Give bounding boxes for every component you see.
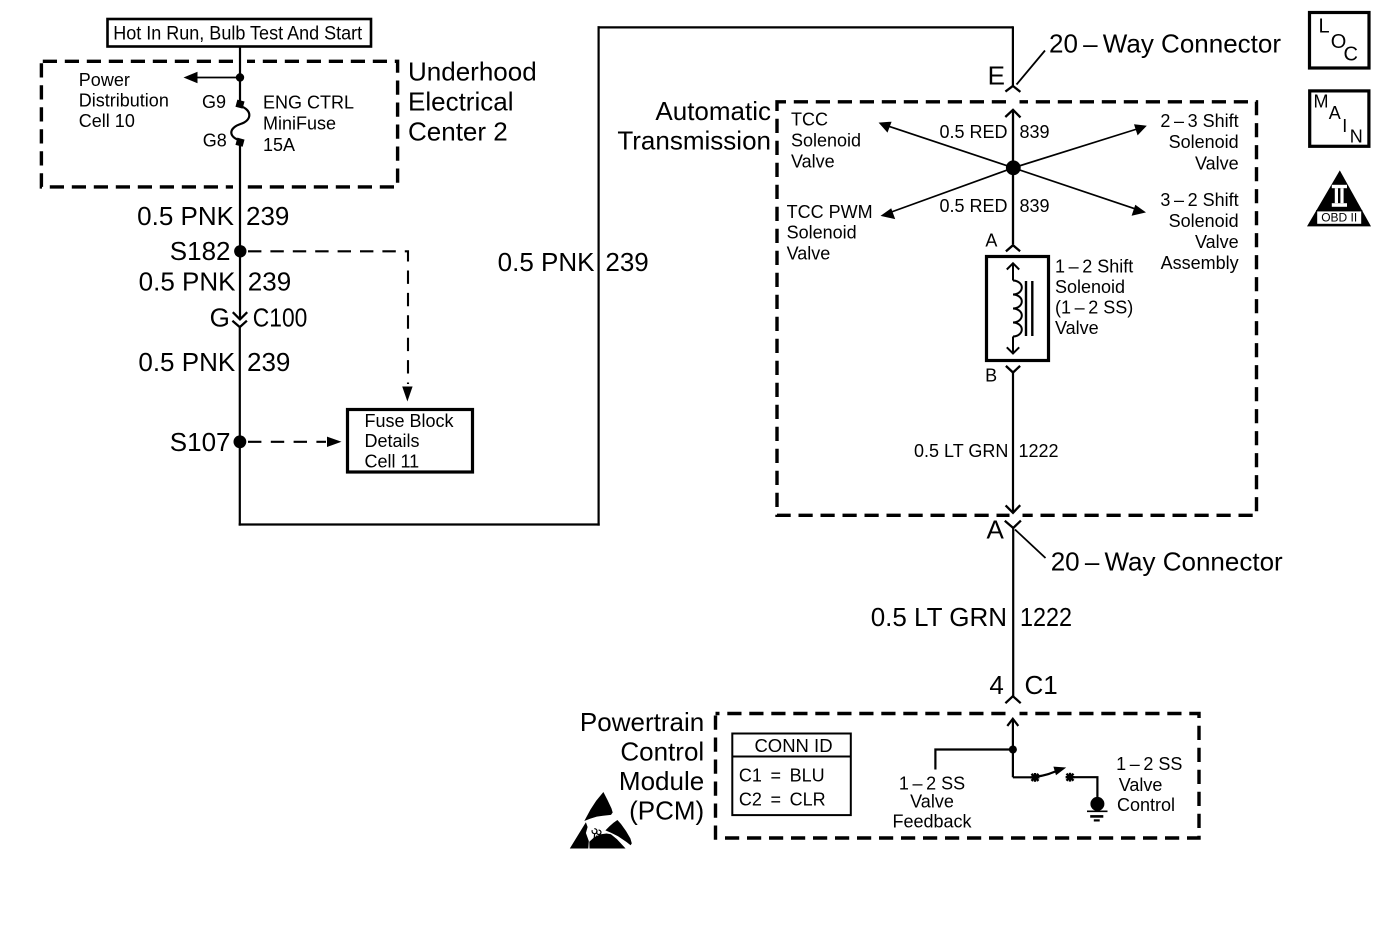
svg-text:839: 839 [1020, 122, 1050, 142]
svg-text:20 – Way Connector: 20 – Way Connector [1051, 546, 1283, 576]
svg-text:A: A [987, 515, 1005, 545]
node: fuse value label [263, 93, 354, 156]
node: 2-3 Shift Solenoid Valve label [1160, 111, 1238, 173]
wire label 0.5 PNK 239 (third) [138, 347, 290, 377]
wire label 0.5 LT GRN 1222 (below transmission) [871, 602, 1072, 632]
svg-text:C1: C1 [1025, 670, 1058, 700]
wire: entry arrow below E (open arrowhead up) [1005, 110, 1020, 244]
svg-text:Details: Details [365, 431, 420, 451]
wire: branch to 1-2 SS Valve Feedback [935, 750, 1013, 770]
svg-text:(PCM): (PCM) [629, 796, 704, 826]
svg-text:Underhood: Underhood [408, 57, 537, 87]
leader line to 20-Way Connector (top) [1017, 51, 1046, 85]
svg-text:G: G [210, 303, 230, 333]
wire: dashed branch from S107 to Fuse Block Details [248, 441, 326, 443]
svg-text:Control: Control [620, 737, 704, 767]
junction S182 [234, 245, 246, 257]
svg-text:15A: 15A [263, 135, 295, 155]
svg-text:Solenoid: Solenoid [1169, 132, 1239, 152]
solenoid coil [1013, 281, 1022, 337]
junction dot PCM [1009, 746, 1017, 754]
svg-text:Valve: Valve [791, 152, 835, 172]
wire: solenoid B down to 20-way connector [1012, 373, 1014, 512]
svg-text:0.5 PNK: 0.5 PNK [137, 201, 234, 231]
svg-text:E: E [988, 60, 1005, 90]
svg-text:I: I [1342, 116, 1347, 136]
ground symbol [1087, 797, 1108, 821]
ESD sensitivity symbol [570, 792, 632, 849]
svg-text:L: L [1319, 16, 1330, 38]
wire: riser vertical up [597, 26, 599, 525]
svg-text:OBD II: OBD II [1321, 211, 1357, 225]
svg-text:Powertrain: Powertrain [580, 707, 704, 737]
wire: arrow to TCC Solenoid Valve [888, 126, 1013, 168]
svg-text:239: 239 [605, 247, 648, 277]
svg-text:Hot In Run, Bulb Test And Star: Hot In Run, Bulb Test And Start [113, 23, 363, 45]
pin A chevron [1006, 245, 1020, 251]
svg-text:Valve: Valve [910, 791, 954, 811]
terminal G8 square [235, 138, 244, 147]
svg-text:Control: Control [1117, 795, 1175, 815]
svg-text:Cell 10: Cell 10 [79, 111, 135, 131]
junction dot to Power Distribution [236, 73, 244, 81]
connector E chevron [1005, 86, 1020, 92]
pin B chevron [1006, 366, 1020, 373]
solenoid 1-2 Shift (1-2 SS) valve box [987, 257, 1049, 361]
svg-text:Valve: Valve [787, 244, 831, 264]
wire label 0.5 RED 839 (lower) [939, 196, 1049, 216]
svg-text:G8: G8 [203, 131, 227, 151]
node: Power Distribution Cell 10 label [79, 70, 169, 131]
wire label 0.5 LT GRN 1222 (inside transmission) [914, 441, 1059, 461]
wire: dashed branch from S182 to Fuse Block Details [248, 251, 408, 384]
svg-text:Automatic: Automatic [655, 96, 771, 126]
node: Underhood Electrical Center 2 label [408, 57, 537, 147]
svg-text:Feedback: Feedback [892, 811, 972, 831]
svg-text:239: 239 [248, 266, 291, 296]
solenoid core lines [1025, 281, 1027, 336]
svg-text:239: 239 [246, 201, 289, 231]
svg-text:Module: Module [619, 766, 704, 796]
node: TCC PWM Solenoid Valve label [787, 202, 873, 264]
terminal G9 square [235, 100, 244, 109]
switch arm with arrow [1037, 771, 1058, 777]
wire label 0.5 PNK 239 (riser) [498, 247, 649, 277]
node: 3-2 Shift Solenoid Valve Assembly label [1160, 190, 1238, 273]
connector C1 chevron [1005, 696, 1020, 703]
node: Hot In Run feed box [108, 19, 372, 47]
svg-text:Valve: Valve [1119, 775, 1163, 795]
svg-text:MiniFuse: MiniFuse [263, 114, 336, 134]
junction dot solenoid feed [1006, 160, 1021, 175]
wire: main vertical below fuse down to bottom corner [239, 143, 241, 319]
svg-text:Valve: Valve [1195, 232, 1239, 252]
svg-text:Fuse Block: Fuse Block [365, 411, 455, 431]
svg-text:0.5 PNK: 0.5 PNK [498, 247, 595, 277]
leader line to 20-Way Connector (bottom) [1015, 530, 1046, 559]
svg-text:4: 4 [989, 670, 1003, 700]
node: Fuse Block Details box [348, 410, 473, 473]
svg-text:Solenoid: Solenoid [1169, 211, 1239, 231]
svg-text:0.5 RED: 0.5 RED [939, 196, 1007, 216]
svg-text:Valve: Valve [1195, 153, 1239, 173]
node: 1-2 SS Valve Feedback label [892, 773, 972, 831]
node: LOC index box [1310, 13, 1370, 69]
svg-text:239: 239 [247, 347, 290, 377]
svg-text:S182: S182 [170, 236, 231, 266]
svg-text:Solenoid: Solenoid [791, 131, 861, 151]
svg-text:M: M [1314, 92, 1329, 112]
svg-text:0.5 PNK: 0.5 PNK [138, 347, 235, 377]
svg-text:839: 839 [1020, 196, 1050, 216]
svg-text:A: A [985, 230, 997, 250]
svg-text:CONN ID: CONN ID [754, 735, 832, 756]
svg-text:Valve: Valve [1055, 318, 1099, 338]
node: CONN ID table [732, 734, 851, 816]
svg-text:N: N [1350, 127, 1363, 147]
svg-text:0.5 RED: 0.5 RED [939, 122, 1007, 142]
svg-text:0.5 LT GRN: 0.5 LT GRN [914, 441, 1008, 461]
wire: to switch left contact [1013, 776, 1032, 778]
svg-text:(1 – 2 SS): (1 – 2 SS) [1055, 297, 1133, 317]
svg-text:Solenoid: Solenoid [787, 223, 857, 243]
svg-text:C2 = CLR: C2 = CLR [739, 790, 826, 810]
svg-text:1 – 2 SS: 1 – 2 SS [899, 773, 965, 793]
svg-text:Power: Power [79, 70, 130, 90]
wire: arrow to Power Distribution Cell 10 [194, 77, 240, 79]
node: 1-2 Shift Solenoid label [1055, 256, 1133, 338]
svg-text:C: C [1344, 43, 1358, 65]
svg-text:ENG CTRL: ENG CTRL [263, 93, 354, 113]
arrow into Fuse Block Details box (right) [327, 437, 342, 447]
connector C100 symbol (arrow + chevron) [232, 312, 247, 327]
svg-text:B: B [985, 365, 997, 385]
svg-text:G9: G9 [202, 92, 226, 112]
fuse ENG CTRL MiniFuse 15A (S-curve element) [231, 106, 249, 141]
node: TCC Solenoid Valve label [791, 110, 861, 172]
svg-text:1 – 2 Shift: 1 – 2 Shift [1055, 256, 1133, 276]
powertrain control module dashed box [716, 714, 1200, 839]
svg-text:Cell 11: Cell 11 [365, 452, 420, 472]
wire: drop to connector E [1012, 26, 1014, 86]
svg-text:0.5 PNK: 0.5 PNK [139, 266, 236, 296]
wire label 0.5 RED 839 (upper) [939, 122, 1049, 142]
node: Powertrain Control Module (PCM) label [580, 707, 704, 826]
svg-text:0.5 LT GRN: 0.5 LT GRN [871, 602, 1007, 632]
svg-text:3 – 2 Shift: 3 – 2 Shift [1160, 190, 1238, 210]
connector A chevron (Y) [1005, 521, 1021, 528]
node: Automatic Transmission label [617, 96, 771, 155]
wire: exit arrow at transmission boundary (open arrowhead down) [1006, 505, 1021, 513]
svg-text:Electrical: Electrical [408, 86, 513, 116]
wire: main feed vertical from Hot In Run box into UEC [239, 46, 241, 100]
wire: arrow to 3-2 Shift Solenoid Valve Assembly [1013, 168, 1136, 210]
svg-text:Center 2: Center 2 [408, 116, 508, 146]
junction S107 [234, 435, 247, 448]
node: OBD II symbol [1307, 170, 1371, 226]
wire label 0.5 PNK 239 (second) [139, 266, 292, 296]
svg-text:2 – 3 Shift: 2 – 3 Shift [1160, 111, 1238, 131]
solenoid internal wire with arrows [1007, 263, 1019, 353]
svg-text:Solenoid: Solenoid [1055, 277, 1125, 297]
svg-text:1222: 1222 [1020, 602, 1072, 632]
svg-text:A: A [1329, 103, 1341, 123]
wire: right contact to ground [1074, 777, 1097, 797]
svg-text:1 – 2 SS: 1 – 2 SS [1116, 754, 1182, 774]
wire label 0.5 PNK 239 (first) [137, 201, 289, 231]
svg-text:20 – Way Connector: 20 – Way Connector [1049, 29, 1281, 59]
svg-text:Assembly: Assembly [1161, 253, 1239, 273]
svg-text:C100: C100 [253, 303, 307, 333]
svg-text:Transmission: Transmission [617, 126, 771, 156]
wire: top horizontal run to E [598, 26, 1013, 28]
automatic transmission dashed box [777, 102, 1257, 516]
wire: bottom horizontal run to riser [239, 523, 600, 525]
switch contact right (star) [1066, 773, 1075, 782]
wire: 20-way connector down to PCM C1 [1012, 528, 1014, 696]
underhood electrical center 2 dashed box [41, 61, 397, 187]
node: MAIN index box [1310, 91, 1369, 147]
svg-text:C1 = BLU: C1 = BLU [739, 766, 825, 786]
wire: arrow to TCC PWM Solenoid Valve [890, 168, 1013, 213]
svg-text:TCC: TCC [791, 110, 828, 130]
node: 1-2 SS Valve Control label [1116, 754, 1182, 815]
wire: arrow to 2-3 Shift Solenoid Valve [1013, 129, 1137, 168]
arrow into Fuse Block Details box (down) [402, 387, 412, 402]
svg-text:TCC PWM: TCC PWM [787, 202, 873, 222]
svg-text:S107: S107 [170, 427, 231, 457]
wire: main vertical below C100 [239, 327, 241, 526]
svg-text:1222: 1222 [1019, 441, 1059, 461]
switch contact left (star) [1031, 773, 1040, 782]
svg-text:Distribution: Distribution [79, 91, 169, 111]
wire: PCM entry arrow (open arrowhead up) [1007, 719, 1018, 778]
